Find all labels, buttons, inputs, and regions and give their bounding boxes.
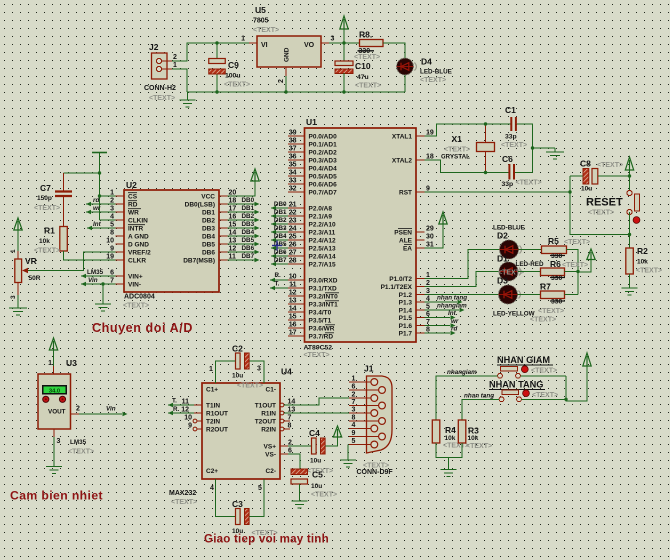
wire D1 to R6 [518, 271, 541, 273]
svg-text:7: 7 [288, 414, 292, 421]
svg-text:CRYSTAL: CRYSTAL [441, 154, 470, 161]
svg-text:CS: CS [128, 193, 138, 200]
svg-text:DB1: DB1 [202, 209, 215, 216]
wire NHAN TANG right to power [522, 366, 588, 401]
svg-text:R6: R6 [550, 259, 561, 269]
svg-text:37: 37 [289, 146, 297, 153]
svg-text:XTAL2: XTAL2 [392, 157, 412, 164]
U4 pin 2 VS+ wire [280, 439, 312, 446]
svg-text:DB7: DB7 [242, 253, 255, 260]
svg-text:17: 17 [289, 330, 297, 337]
svg-text:R1IN: R1IN [261, 411, 276, 418]
svg-text:P0.3/AD3: P0.3/AD3 [309, 157, 338, 164]
svg-text:13: 13 [289, 298, 297, 305]
resistor R6 330 [541, 259, 566, 282]
U3 VOUT wire to Vin net [71, 406, 128, 417]
U1 pin 15 P3.5/T1 [288, 314, 332, 325]
svg-text:3: 3 [57, 438, 61, 445]
potentiometer VR 50R [10, 249, 41, 299]
junction CS [98, 194, 101, 197]
svg-text:Chuyen doi A/D: Chuyen doi A/D [92, 321, 193, 335]
wire DB3 from U2 [228, 221, 260, 230]
svg-text:T.: T. [172, 398, 177, 405]
wire P1.2 to D3 [425, 294, 499, 296]
U2 pin 12 DB6 [202, 246, 236, 257]
svg-text:<TEXT>: <TEXT> [123, 303, 149, 310]
U4 pin 12 R1OUT [168, 406, 202, 415]
svg-text:C6: C6 [502, 154, 513, 164]
wire DB2 from U2 [228, 213, 260, 222]
U2 pin 6 VIN+ [110, 270, 143, 281]
svg-text:11: 11 [182, 398, 190, 405]
svg-text:P1.1/T2EX: P1.1/T2EX [381, 284, 413, 291]
svg-text:DB0: DB0 [242, 197, 255, 204]
svg-text:7805: 7805 [253, 18, 269, 25]
svg-text:VS-: VS- [265, 452, 276, 459]
svg-text:C3: C3 [232, 499, 243, 509]
svg-text:DB5: DB5 [242, 237, 255, 244]
svg-text:R1OUT: R1OUT [206, 411, 228, 418]
wire XTAL2 to C6 [425, 160, 510, 173]
wire J2 pin1 down to rail [172, 69, 187, 92]
wire C2 pin3 [250, 361, 265, 383]
svg-text:<TEXT>: <TEXT> [532, 392, 558, 399]
svg-text:8: 8 [110, 230, 114, 237]
svg-text:4: 4 [352, 422, 356, 429]
U4 pin 14 T1OUT wire to J1 [280, 398, 349, 407]
wire C5 to ground [299, 484, 301, 501]
wire R6 to supply rail [565, 271, 579, 273]
resistor R1 10k [39, 226, 67, 252]
svg-text:<TEXT>: <TEXT> [501, 142, 527, 149]
svg-text:C8: C8 [580, 159, 591, 169]
svg-text:16: 16 [289, 322, 297, 329]
ground rail [180, 92, 196, 107]
U4 pin 10 T2IN [184, 414, 202, 423]
svg-text:nhan tang: nhan tang [437, 295, 467, 302]
svg-text:CLKIN: CLKIN [128, 217, 148, 224]
net nhangiam from P1.4 [425, 303, 468, 313]
svg-text:P1.7: P1.7 [399, 330, 413, 337]
wire C1 to corner [517, 124, 533, 173]
svg-text:C1: C1 [505, 105, 516, 115]
svg-text:R.: R. [275, 272, 282, 279]
net wr from P1.6 [425, 318, 459, 328]
svg-text:DB2: DB2 [274, 217, 287, 224]
wire DB5 from U2 [228, 237, 260, 246]
wire NHAN GIAM right [521, 375, 567, 377]
wire XTAL1 to C1 [425, 124, 512, 136]
button NHAN GIAM [497, 355, 553, 378]
U1 pin 30 ALE [399, 234, 434, 245]
svg-text:P3.1/TXD: P3.1/TXD [309, 285, 337, 292]
wire U2 VCC to power [228, 181, 256, 196]
cursor cross marker [272, 241, 282, 251]
U1 P3 INT WR RD overbars [325, 293, 339, 333]
svg-text:33p: 33p [502, 181, 514, 188]
wire button to R2 [629, 212, 631, 248]
svg-text:VI: VI [261, 42, 268, 49]
svg-text:C9: C9 [228, 60, 239, 70]
U1 pin 37 P0.2/AD2 [288, 146, 337, 157]
U1 pin 13 P3.3/INT1 [288, 298, 338, 309]
svg-text:P2.4/A12: P2.4/A12 [309, 237, 336, 244]
svg-text:33: 33 [289, 178, 297, 185]
svg-text:26: 26 [289, 242, 297, 249]
svg-text:150p: 150p [37, 195, 52, 202]
svg-text:INTR: INTR [128, 225, 143, 232]
svg-text:P3.4/T0: P3.4/T0 [309, 309, 332, 316]
wire DB4 to U1 [271, 233, 288, 242]
svg-text:P3.6/WR: P3.6/WR [309, 325, 335, 332]
power terminal VR [14, 218, 22, 259]
svg-text:<TEXT>: <TEXT> [564, 239, 590, 246]
svg-text:P3.2/INT0: P3.2/INT0 [309, 293, 339, 300]
svg-text:Int.: Int. [448, 310, 458, 317]
net Vin to VIN- [81, 277, 116, 286]
net LM35 to VIN+ [81, 269, 116, 278]
svg-text:C1+: C1+ [206, 387, 218, 394]
wire DB6 from U2 [228, 245, 260, 254]
svg-text:<TEXT>: <TEXT> [34, 248, 60, 255]
svg-text:D3: D3 [497, 276, 508, 286]
svg-text:U4: U4 [281, 367, 292, 377]
wire VR to ground [17, 283, 19, 309]
svg-text:10: 10 [106, 238, 114, 245]
net T to P3.1 [270, 281, 288, 291]
U2 pin 4 CLKIN [110, 214, 148, 225]
ground C5 [292, 501, 308, 508]
U2 pin 14 DB4 [202, 230, 236, 241]
ground R2 [622, 288, 638, 295]
wire C4 to power [326, 437, 338, 446]
svg-text:1: 1 [241, 36, 245, 43]
sensor U3 LM35 body [38, 358, 77, 429]
LED D3 yellow [493, 276, 535, 318]
resistor R4 10k [432, 420, 456, 443]
svg-text:R4: R4 [445, 425, 456, 435]
svg-text:DB3: DB3 [242, 221, 255, 228]
svg-text:10k: 10k [468, 435, 479, 442]
net wr to U2 [86, 205, 116, 214]
svg-text:DB4: DB4 [202, 233, 215, 240]
svg-text:P1.5: P1.5 [399, 315, 413, 322]
svg-text:PSEN: PSEN [394, 229, 412, 236]
svg-text:<TEXT>: <TEXT> [363, 463, 389, 470]
power terminal U2 VCC [251, 169, 259, 181]
U1 pin 35 P0.4/AD4 [288, 162, 337, 173]
ADC U2 ADC0804 body [124, 180, 219, 301]
svg-text:XTAL1: XTAL1 [392, 133, 412, 140]
wire R5 to supply rail [567, 250, 579, 295]
svg-text:U2: U2 [126, 180, 137, 190]
svg-text:23: 23 [289, 218, 297, 225]
svg-text:330: 330 [551, 275, 563, 282]
U1 pin 31 EA [403, 242, 434, 253]
svg-text:50R: 50R [29, 275, 41, 282]
wire node to ground [533, 147, 556, 149]
svg-text:11: 11 [289, 282, 297, 289]
svg-text:4: 4 [210, 485, 214, 492]
J1 pin 6 [349, 384, 385, 394]
svg-text:C4: C4 [309, 428, 320, 438]
resistor R5 330 [542, 236, 567, 260]
svg-text:34: 34 [289, 170, 297, 177]
capacitor C6 33p [502, 154, 515, 188]
svg-text:330: 330 [551, 299, 563, 306]
svg-text:DB3: DB3 [202, 225, 215, 232]
svg-text:21: 21 [289, 202, 297, 209]
junction crystal top [484, 122, 487, 125]
svg-text:nhan tang: nhan tang [464, 393, 494, 400]
svg-text:R2IN: R2IN [261, 427, 276, 434]
svg-text:24: 24 [289, 226, 297, 233]
svg-text:X1: X1 [452, 134, 463, 144]
svg-text:DB2: DB2 [242, 213, 255, 220]
svg-text:VO: VO [304, 42, 315, 49]
svg-text:10: 10 [289, 274, 297, 281]
U2 pin 11 DB7(MSB) [183, 254, 236, 265]
svg-text:DB6: DB6 [202, 249, 215, 256]
capacitor C4 10u [309, 428, 325, 465]
svg-text:A GND: A GND [128, 233, 149, 240]
svg-text:NHAN TANG: NHAN TANG [489, 380, 543, 390]
U2 pin 7 VIN- [110, 278, 141, 289]
svg-text:P2.7/A15: P2.7/A15 [309, 261, 336, 268]
svg-text:DB7(MSB): DB7(MSB) [183, 257, 215, 264]
U2 pin 10 D GND [106, 238, 149, 249]
svg-text:Cam bien nhiet: Cam bien nhiet [10, 489, 103, 503]
svg-text:<TEXT>: <TEXT> [538, 308, 564, 315]
U1 pin 22 P2.1/A9 [288, 210, 332, 221]
power terminal C4 [333, 426, 341, 437]
svg-text:T2OUT: T2OUT [255, 419, 276, 426]
wire DB4 from U2 [228, 229, 260, 238]
svg-text:P2.0/A8: P2.0/A8 [309, 205, 333, 212]
svg-text:47u: 47u [357, 74, 369, 81]
svg-text:100u: 100u [225, 73, 241, 80]
wire D3 to R7 [518, 294, 541, 296]
J1 pin 2 [349, 392, 378, 402]
svg-text:9: 9 [352, 430, 356, 437]
svg-text:T1IN: T1IN [206, 403, 220, 410]
svg-text:D GND: D GND [128, 241, 149, 248]
wire U3 pin3 to ground [54, 429, 87, 467]
junction C7 tap [98, 171, 101, 174]
U2 CS RD WR INTR overbars [128, 193, 145, 225]
U1 pin 26 P2.5/A13 [288, 242, 336, 253]
wire DB0 from U2 [228, 197, 260, 206]
svg-text:P1.6: P1.6 [399, 323, 413, 330]
U1 pin 19 XTAL1 [392, 130, 434, 141]
U1 pin 25 P2.4/A12 [288, 234, 336, 245]
svg-text:28: 28 [289, 258, 297, 265]
svg-text:P0.6/AD6: P0.6/AD6 [309, 181, 338, 188]
svg-text:R7: R7 [540, 282, 551, 292]
wire DB1 to U1 [271, 209, 288, 218]
net rd to U2 [86, 197, 116, 206]
U1 EA overbar [404, 244, 412, 246]
wire bar to CLKIN [100, 219, 116, 221]
U4 pin 13 R1IN wire to J1 [280, 406, 349, 415]
svg-text:wr: wr [93, 205, 101, 212]
net Int to U2 [87, 221, 116, 230]
svg-text:Int: Int [93, 221, 102, 228]
capacitor C10 [335, 43, 371, 92]
resistor R3 10k [458, 420, 479, 443]
wire P1.0 to D2 [425, 250, 500, 279]
J1 pin 7 [349, 399, 385, 409]
svg-text:3: 3 [331, 36, 335, 43]
svg-text:10: 10 [184, 414, 192, 421]
U4 pin 7 T2OUT [280, 414, 291, 423]
wire reset node to C8 [570, 175, 583, 177]
svg-text:22: 22 [289, 210, 297, 217]
svg-text:D1: D1 [497, 254, 508, 264]
svg-text:P3.7/RD: P3.7/RD [309, 333, 334, 340]
svg-text:10k: 10k [445, 435, 456, 442]
svg-text:C2: C2 [232, 344, 243, 354]
svg-text:<TEXT>: <TEXT> [530, 317, 556, 324]
connector J2 [144, 42, 177, 92]
U1 pin 12 P3.2/INT0 [288, 290, 338, 301]
svg-text:CLKR: CLKR [128, 257, 146, 264]
wire R4 R3 to ground [436, 443, 462, 470]
svg-text:2: 2 [76, 406, 80, 413]
svg-text:14: 14 [288, 398, 296, 405]
svg-text:LM35: LM35 [70, 439, 87, 446]
svg-text:P2.6/A14: P2.6/A14 [309, 253, 336, 260]
svg-text:5: 5 [258, 485, 262, 492]
svg-text:LED-RED: LED-RED [516, 261, 544, 268]
wire DB7 from U2 [228, 253, 260, 262]
junction C1-C6 node [531, 146, 534, 149]
svg-text:T.: T. [275, 281, 280, 288]
wire bar to CS [100, 195, 116, 197]
svg-text:<TEXT>: <TEXT> [355, 83, 381, 90]
svg-text:VR: VR [25, 256, 37, 266]
power terminal +5V top [340, 16, 348, 43]
svg-text:27: 27 [289, 250, 297, 257]
svg-text:Vin: Vin [88, 277, 98, 284]
svg-text:<TEXT>: <TEXT> [237, 383, 263, 390]
svg-text:CONN-D9F: CONN-D9F [357, 469, 394, 476]
wire R2 to ground [629, 274, 631, 288]
svg-text:U5: U5 [255, 5, 266, 15]
button NHAN TANG [489, 380, 545, 402]
J1 pin 1 [349, 376, 378, 386]
wire C8 to vcc node [598, 175, 630, 177]
svg-text:Vin: Vin [106, 406, 116, 413]
pushbutton RESET [586, 190, 640, 214]
LED D1 red [497, 254, 544, 282]
U1 pin 27 P2.6/A14 [288, 250, 336, 261]
svg-text:P3.0/RXD: P3.0/RXD [309, 277, 338, 284]
svg-text:P2.3/A11: P2.3/A11 [309, 229, 336, 236]
U2 pin 13 DB5 [202, 238, 236, 249]
svg-text:R5: R5 [548, 236, 559, 246]
junction C8 right [628, 174, 631, 177]
svg-text:R1: R1 [44, 226, 55, 236]
ground VR [9, 308, 27, 315]
svg-text:CONN-H2: CONN-H2 [144, 85, 176, 92]
svg-text:VIN+: VIN+ [128, 273, 143, 280]
svg-text:LED-YELLOW: LED-YELLOW [493, 311, 535, 318]
svg-text:1: 1 [48, 360, 52, 367]
svg-text:<TEXT>: <TEXT> [224, 82, 250, 89]
U1 pin 21 P2.0/A8 [288, 202, 332, 213]
wire DB7 to U1 [271, 257, 288, 266]
U1 pin 33 P0.6/AD6 [288, 178, 337, 189]
svg-text:RESET: RESET [586, 197, 623, 209]
junction buttons common [564, 398, 567, 401]
svg-text:38: 38 [289, 138, 297, 145]
U1 pin 9 RST [399, 186, 430, 197]
ground XTAL [546, 148, 564, 159]
svg-text:<TEXT>: <TEXT> [444, 147, 470, 154]
junction C10 rail [342, 90, 345, 93]
svg-text:Giao tiep voi may tinh: Giao tiep voi may tinh [204, 533, 329, 546]
net Int from P1.5 [425, 310, 458, 320]
ground R4 R3 [441, 470, 457, 477]
svg-text:10u: 10u [311, 483, 322, 490]
U1 pin 10 P3.0/RXD [288, 274, 338, 285]
wire VIN- to ground [102, 284, 104, 304]
U4 pin 4 C2+ wire to C3 [210, 479, 236, 517]
crystal X1 [441, 124, 495, 173]
capacitor C8 10u [580, 159, 598, 193]
power terminal LED rail [578, 249, 595, 272]
svg-text:7: 7 [352, 399, 356, 406]
junction button bottom [628, 233, 631, 236]
power bar terminal [92, 153, 107, 221]
svg-text:D4: D4 [421, 57, 432, 67]
svg-text:P3.5/T1: P3.5/T1 [309, 317, 332, 324]
wire DB2 to U1 [271, 217, 288, 226]
svg-text:35: 35 [289, 162, 297, 169]
wire RST to reset node [425, 191, 571, 193]
svg-text:33p: 33p [505, 134, 517, 141]
svg-text:P0.5/AD5: P0.5/AD5 [309, 173, 338, 180]
U4 pin 6 VS- wire [280, 447, 300, 469]
U1 pin 28 P2.7/A15 [288, 258, 336, 269]
svg-text:RST: RST [399, 189, 412, 196]
junction RST [568, 190, 571, 193]
wire C2 pin1 [209, 361, 236, 383]
wire D2 to R5 [519, 249, 542, 251]
capacitor C9 [209, 43, 241, 92]
U1 pin 29 PSEN [394, 226, 434, 237]
svg-text:P0.2/AD2: P0.2/AD2 [309, 149, 338, 156]
svg-text:P3.3/INT1: P3.3/INT1 [309, 301, 339, 308]
J1 pin 4 [349, 422, 378, 432]
wire C6 right to junction [515, 172, 533, 174]
svg-text:EA: EA [403, 245, 412, 252]
resistor R8 [358, 30, 384, 56]
svg-text:C2-: C2- [266, 468, 276, 475]
U4 pin 9 R2OUT [188, 422, 202, 431]
svg-text:wr: wr [451, 318, 459, 325]
svg-text:P0.7/AD7: P0.7/AD7 [309, 189, 338, 196]
U2 pin 3 WR [110, 206, 139, 217]
svg-text:25: 25 [289, 234, 297, 241]
wire DB1 from U2 [228, 205, 260, 214]
svg-text:VIN-: VIN- [128, 281, 141, 288]
wire bottom supply rail [187, 91, 405, 93]
wire nhangiam net to R4 [436, 369, 498, 420]
svg-text:<TEXT>: <TEXT> [597, 162, 623, 169]
junction C9 top [215, 41, 218, 44]
